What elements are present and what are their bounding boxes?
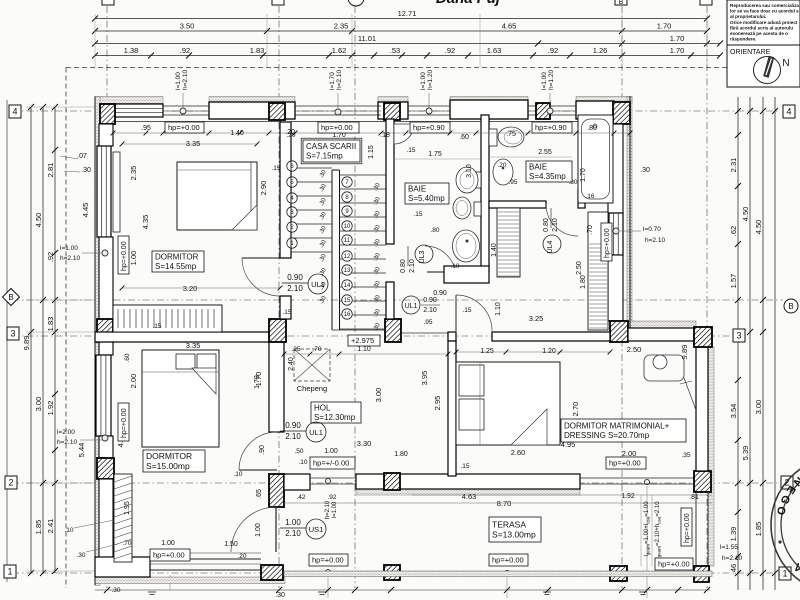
svg-text:1.38: 1.38	[124, 46, 139, 55]
svg-text:hp=+0.00: hp=+0.00	[604, 228, 611, 258]
landing edge line	[401, 332, 448, 334]
svg-text:2.50: 2.50	[576, 261, 583, 275]
svg-text:1.83: 1.83	[46, 317, 55, 332]
svg-text:DORMITOR: DORMITOR	[146, 451, 192, 461]
svg-text:.18: .18	[380, 132, 390, 139]
svg-text:4.50: 4.50	[741, 207, 750, 222]
svg-text:2.00: 2.00	[129, 374, 138, 389]
svg-text:16: 16	[344, 312, 351, 318]
svg-text:11.01: 11.01	[358, 34, 376, 43]
svg-text:.53: .53	[390, 46, 400, 55]
column left lower	[97, 458, 114, 479]
svg-text:l=1.00: l=1.00	[175, 72, 182, 90]
svg-text:.15: .15	[462, 307, 471, 314]
svg-text:1.85: 1.85	[754, 522, 763, 537]
svg-text:.70: .70	[312, 346, 321, 353]
svg-text:lor se va face doar cu acordul: lor se va face doar cu acordul s	[730, 9, 799, 14]
svg-text:.95: .95	[423, 319, 432, 326]
bath1 toilet tank	[474, 172, 481, 188]
svg-text:hp=+0.00: hp=+0.00	[121, 241, 128, 271]
svg-text:hp=+/-0.00: hp=+/-0.00	[313, 459, 349, 468]
svg-text:l=1.55: l=1.55	[720, 544, 738, 551]
svg-text:9.89: 9.89	[680, 345, 689, 360]
svg-text:15: 15	[344, 298, 351, 304]
column hol south	[384, 473, 400, 490]
svg-text:l=1.00: l=1.00	[541, 72, 548, 90]
insulation top band segments	[95, 97, 163, 104]
svg-text:9.89: 9.89	[22, 336, 31, 351]
svg-text:1: 1	[7, 567, 12, 577]
south wall dormitor2	[95, 557, 150, 577]
bed dormitor top-left	[177, 162, 257, 230]
svg-text:1.40: 1.40	[491, 243, 498, 257]
svg-text:.30: .30	[640, 167, 650, 174]
svg-text:fără acordul scris al autorulu: fără acordul scris al autorulu	[730, 25, 793, 30]
column top mid2 (stair right)	[384, 103, 400, 120]
svg-text:4.50: 4.50	[34, 213, 43, 228]
svg-text:h=2.10: h=2.10	[645, 237, 665, 244]
svg-text:1.85: 1.85	[34, 520, 43, 535]
svg-text:5.39: 5.39	[741, 446, 750, 461]
svg-text:3.00: 3.00	[34, 397, 43, 412]
svg-text:2.90: 2.90	[259, 181, 268, 196]
svg-text:0.90: 0.90	[433, 290, 447, 297]
svg-text:1.57: 1.57	[729, 274, 738, 289]
page border line left	[6, 100, 8, 582]
svg-text:UL1: UL1	[405, 303, 418, 310]
svg-text:2.95: 2.95	[433, 396, 442, 411]
svg-text:1.70: 1.70	[657, 22, 672, 31]
svg-text:.65: .65	[256, 489, 263, 499]
svg-text:.30: .30	[111, 587, 120, 594]
radiator bottom-left	[114, 474, 132, 562]
svg-text:CASA SCARII: CASA SCARII	[306, 142, 356, 151]
closet bath1 side	[497, 208, 520, 277]
left wall	[94, 97, 96, 586]
svg-text:1.26: 1.26	[593, 46, 608, 55]
svg-text:hp=+0.00: hp=+0.00	[658, 560, 690, 569]
svg-text:hp=+0.00: hp=+0.00	[312, 556, 344, 565]
svg-text:2.31: 2.31	[729, 158, 738, 173]
svg-text:.10: .10	[233, 471, 242, 478]
svg-text:al proprietarului.: al proprietarului.	[730, 14, 766, 19]
svg-text:.95: .95	[141, 125, 151, 132]
svg-text:14: 14	[344, 283, 351, 289]
top wall: solid segments	[209, 102, 295, 119]
wall between baths	[481, 115, 489, 272]
svg-text:Reproducerea sau comercializa: Reproducerea sau comercializa	[730, 3, 799, 8]
right wall (top block)	[629, 97, 631, 333]
svg-text:2.10: 2.10	[423, 307, 437, 314]
svg-text:B: B	[619, 0, 624, 6]
svg-text:8.70: 8.70	[497, 499, 512, 508]
window left W6 (2.35)	[97, 146, 111, 237]
closet hall (hatched hangers)	[588, 212, 608, 330]
svg-text:hp=+0.00: hp=+0.00	[609, 459, 641, 468]
svg-text:hgeam=2.10+husa=2.10: hgeam=2.10+husa=2.10	[655, 501, 662, 561]
svg-text:.80: .80	[430, 227, 439, 234]
svg-text:1.00: 1.00	[285, 518, 301, 527]
svg-text:4: 4	[12, 107, 17, 117]
column terasa SE	[694, 566, 709, 582]
svg-text:.80: .80	[587, 125, 597, 132]
svg-text:hp=+0.00: hp=+0.00	[492, 556, 524, 565]
svg-text:12.71: 12.71	[398, 9, 417, 18]
svg-text:.42: .42	[296, 494, 305, 501]
svg-text:hp=+0.00: hp=+0.00	[684, 513, 691, 543]
bath1 door UL3 arc	[425, 246, 456, 277]
insulation south wall master	[356, 489, 580, 495]
svg-text:1.70: 1.70	[580, 168, 587, 182]
window right W9 (0.70)	[609, 213, 623, 255]
svg-text:1: 1	[782, 569, 787, 579]
window W1 top-left	[115, 104, 163, 117]
svg-text:.60: .60	[124, 353, 131, 362]
svg-text:3: 3	[736, 331, 741, 341]
svg-text:.30: .30	[76, 552, 85, 559]
column axis3 mid	[269, 319, 286, 342]
column entry (tall)	[269, 474, 284, 507]
svg-text:.92: .92	[46, 252, 55, 262]
svg-text:0.90: 0.90	[285, 421, 301, 430]
svg-text:hp=+0.90: hp=+0.90	[535, 123, 567, 132]
svg-text:.30: .30	[81, 167, 91, 174]
svg-text:2.40: 2.40	[288, 357, 295, 371]
svg-text:DORMITOR: DORMITOR	[155, 253, 199, 262]
svg-text:2.70: 2.70	[571, 402, 580, 417]
master door arc	[456, 295, 492, 331]
insulation right band lower	[708, 347, 714, 566]
wardrobe top-left room	[113, 305, 222, 332]
svg-text:.92: .92	[445, 46, 455, 55]
svg-text:.10: .10	[450, 263, 459, 270]
hp level boxes	[165, 122, 204, 133]
svg-text:.30: .30	[275, 592, 285, 599]
window W4 bath1	[408, 105, 450, 107]
bed master	[456, 362, 560, 445]
bath dim texts	[394, 158, 481, 160]
bath2 door arc	[546, 204, 578, 236]
svg-text:.15: .15	[282, 309, 291, 316]
svg-text:.15: .15	[152, 323, 161, 330]
svg-text:4.45: 4.45	[81, 203, 90, 218]
svg-text:exonerează pe acesta de o: exonerează pe acesta de o	[730, 31, 788, 36]
window W2	[163, 105, 209, 107]
svg-text:UL4: UL4	[547, 240, 554, 253]
dressing table + stool master	[644, 355, 684, 381]
svg-text:2: 2	[8, 478, 13, 488]
axis markers	[9, 105, 21, 118]
svg-text:h=2.10: h=2.10	[325, 500, 331, 519]
svg-text:3.54: 3.54	[729, 404, 738, 419]
svg-text:.50: .50	[294, 448, 303, 455]
dormitor2 door arc	[239, 469, 277, 471]
svg-text:1.00: 1.00	[161, 540, 175, 547]
svg-text:12: 12	[344, 254, 351, 260]
svg-text:.20: .20	[497, 162, 506, 169]
svg-text:hp=+0.00: hp=+0.00	[321, 123, 353, 132]
svg-text:0.80: 0.80	[400, 259, 407, 273]
column master SE	[694, 471, 711, 492]
svg-text:TERASA: TERASA	[492, 519, 526, 529]
svg-text:.60: .60	[459, 134, 469, 141]
svg-text:10: 10	[344, 224, 351, 230]
svg-text:S=13.00mp: S=13.00mp	[492, 529, 536, 539]
svg-text:.10: .10	[64, 527, 73, 534]
svg-text:UL1: UL1	[309, 428, 323, 437]
bed dormitor bottom-left	[142, 350, 219, 447]
stair door UL1 arc	[242, 257, 280, 259]
column master NE	[694, 327, 712, 347]
column top-left corner	[100, 104, 115, 124]
bath2 bidet	[493, 159, 513, 185]
svg-text:Chepeng: Chepeng	[297, 384, 327, 393]
bottom dims	[95, 589, 710, 591]
svg-text:UL3: UL3	[419, 250, 426, 263]
svg-text:1.80: 1.80	[580, 275, 587, 289]
svg-text:UL1: UL1	[311, 280, 325, 289]
svg-text:B: B	[8, 293, 13, 302]
sidebar panel	[727, 0, 800, 87]
bath1 toilet	[456, 167, 478, 193]
master north wall	[448, 332, 456, 341]
svg-text:răspundere.: răspundere.	[730, 37, 756, 42]
svg-text:S=5.40mp: S=5.40mp	[408, 194, 445, 203]
svg-text:0.80: 0.80	[543, 218, 550, 232]
column left mid	[97, 319, 113, 342]
svg-text:hp=+0.90: hp=+0.90	[413, 123, 445, 132]
svg-text:hp=+0.00: hp=+0.00	[121, 408, 128, 438]
svg-text:3.25: 3.25	[529, 314, 544, 323]
compass	[754, 57, 781, 84]
svg-text:S=12.30mp: S=12.30mp	[314, 413, 356, 422]
svg-text:.92: .92	[327, 494, 336, 501]
svg-text:1.92: 1.92	[46, 401, 55, 416]
window left W7 (2.00)	[96, 355, 111, 436]
svg-text:1.92: 1.92	[621, 493, 635, 500]
svg-text:.07: .07	[77, 153, 87, 160]
svg-text:3.00: 3.00	[374, 388, 383, 403]
column right mid (axis3)	[610, 321, 628, 342]
svg-text:3.00: 3.00	[754, 400, 763, 415]
svg-text:.90: .90	[259, 445, 266, 455]
window south W8	[150, 558, 261, 560]
insulation left band	[95, 97, 100, 586]
terasa east edge	[695, 492, 697, 566]
svg-text:+2.975: +2.975	[351, 336, 374, 345]
window W5 bath2	[528, 105, 576, 107]
svg-text:5.44: 5.44	[77, 443, 86, 458]
radiator top-left room	[113, 152, 120, 232]
svg-text:US1: US1	[309, 525, 324, 534]
svg-text:1.80: 1.80	[394, 451, 408, 458]
column axis3 stair-right	[385, 319, 401, 342]
svg-text:4.63: 4.63	[462, 492, 477, 501]
bath1 sink	[453, 230, 480, 262]
terasa south slab edge	[284, 571, 712, 577]
svg-text:1.10: 1.10	[357, 346, 371, 353]
bath2 south wall	[489, 201, 546, 208]
svg-text:3.50: 3.50	[180, 22, 195, 31]
svg-text:h=2.10: h=2.10	[722, 555, 742, 562]
svg-text:.15: .15	[271, 165, 280, 172]
bathtub bath2	[578, 115, 613, 203]
svg-text:S=14.55mp: S=14.55mp	[155, 262, 197, 271]
svg-text:DRESSING S=20.70mp: DRESSING S=20.70mp	[564, 431, 650, 440]
window W3 stair	[295, 105, 381, 107]
roof overhang dashed	[66, 67, 745, 69]
svg-text:.92: .92	[180, 46, 190, 55]
svg-text:1.70: 1.70	[670, 46, 685, 55]
top wall inner face line	[113, 121, 281, 123]
right dimension lines	[737, 97, 739, 590]
svg-text:HOL: HOL	[314, 404, 331, 413]
svg-text:3.30: 3.30	[357, 439, 372, 448]
svg-text:l=1.00: l=1.00	[332, 501, 338, 518]
svg-text:3.20: 3.20	[183, 284, 198, 293]
svg-text:l=2.00: l=2.00	[57, 429, 75, 436]
svg-text:h=2.10: h=2.10	[336, 70, 343, 90]
svg-text:2.41: 2.41	[46, 519, 55, 534]
svg-text:.75: .75	[506, 131, 516, 138]
svg-text:1.62: 1.62	[332, 46, 347, 55]
column terasa S mid	[384, 565, 400, 580]
svg-text:1.63: 1.63	[487, 46, 502, 55]
svg-text:4.50: 4.50	[754, 220, 763, 235]
svg-text:.15: .15	[460, 463, 469, 470]
svg-text:2.10: 2.10	[285, 529, 301, 538]
svg-text:.15: .15	[413, 211, 422, 218]
svg-text:2.10: 2.10	[409, 259, 416, 273]
bath2 toilet	[498, 127, 524, 147]
room labels	[303, 140, 360, 162]
column top mid1	[269, 103, 285, 120]
svg-text:h=2.10: h=2.10	[57, 439, 77, 446]
column terasa S mid2	[610, 566, 627, 581]
svg-text:2.10: 2.10	[285, 432, 301, 441]
svg-text:4: 4	[786, 107, 791, 117]
round stamp (cut off at edge)	[771, 457, 800, 593]
master west wall	[448, 341, 456, 476]
stair west wall	[280, 122, 291, 258]
svg-text:.20: .20	[286, 132, 295, 139]
svg-text:B: B	[788, 302, 793, 311]
svg-text:2.35: 2.35	[334, 22, 349, 31]
svg-text:h=1.20: h=1.20	[427, 70, 434, 90]
svg-text:.16: .16	[585, 193, 594, 200]
svg-text:BAIE: BAIE	[408, 185, 426, 194]
svg-text:1.00: 1.00	[324, 448, 338, 455]
svg-text:2.60: 2.60	[511, 448, 526, 457]
svg-text:11: 11	[344, 238, 351, 244]
svg-text:3.35: 3.35	[186, 139, 201, 148]
svg-text:2.81: 2.81	[46, 163, 55, 178]
svg-text:2.55: 2.55	[538, 149, 552, 156]
svg-text:1.40: 1.40	[230, 130, 244, 137]
lgeam dim lines	[640, 495, 642, 566]
svg-text:.46: .46	[729, 564, 738, 574]
svg-text:.70: .70	[122, 540, 131, 547]
svg-text:S=7.15mp: S=7.15mp	[306, 152, 343, 161]
svg-text:DORMITOR MATRIMONIAL+: DORMITOR MATRIMONIAL+	[564, 422, 670, 431]
bath1 corner shower	[394, 124, 414, 144]
svg-text:1.75: 1.75	[428, 151, 442, 158]
svg-text:1.10: 1.10	[495, 302, 502, 316]
svg-text:S=15.00mp: S=15.00mp	[146, 461, 190, 471]
svg-text:.62: .62	[729, 226, 738, 236]
svg-text:1.39: 1.39	[729, 527, 738, 542]
svg-text:2.10: 2.10	[552, 218, 559, 232]
svg-text:1.25: 1.25	[480, 348, 494, 355]
svg-text:N: N	[782, 58, 789, 69]
svg-text:3: 3	[10, 329, 15, 339]
svg-text:.35: .35	[681, 452, 690, 459]
svg-text:1.70: 1.70	[254, 372, 263, 387]
svg-text:Orice modificare adusă proiect: Orice modificare adusă proiect	[730, 20, 798, 25]
column south-left bottom	[261, 565, 283, 580]
svg-text:l=0.70: l=0.70	[643, 226, 661, 233]
HOL/master south wall	[284, 474, 310, 490]
svg-text:1.15: 1.15	[368, 145, 375, 159]
svg-text:1.95: 1.95	[124, 501, 131, 515]
svg-text:3.10: 3.10	[466, 164, 473, 178]
svg-text:l=1.00: l=1.00	[420, 72, 427, 90]
svg-text:Dana Puj: Dana Puj	[436, 0, 501, 7]
door gap + US1 leaf	[275, 507, 277, 552]
chepeng attic hatch	[294, 349, 330, 381]
svg-text:.92: .92	[548, 46, 558, 55]
svg-text:2.50: 2.50	[627, 345, 642, 354]
svg-text:1.00: 1.00	[129, 251, 138, 266]
svg-text:lgeam=1.00+lusa=1.00: lgeam=1.00+lusa=1.00	[644, 501, 651, 557]
svg-text:1.00: 1.00	[255, 523, 262, 537]
insulation master NE wall	[628, 321, 696, 328]
svg-text:ORIENTARE: ORIENTARE	[730, 49, 771, 56]
insulation right band top	[627, 97, 632, 333]
staircase CASA SCARII	[331, 170, 333, 330]
interior dimension line top rooms	[113, 132, 630, 134]
svg-text:4.65: 4.65	[502, 22, 517, 31]
east wall dormitor2	[269, 341, 284, 432]
svg-text:1.83: 1.83	[250, 46, 265, 55]
svg-text:.10: .10	[298, 459, 307, 466]
svg-text:h=2.10: h=2.10	[182, 70, 189, 90]
svg-text:4.35: 4.35	[141, 215, 150, 230]
column top-right corner	[613, 102, 630, 124]
bath1 bidet	[453, 197, 471, 219]
svg-text:h=2.10: h=2.10	[60, 255, 80, 262]
svg-text:hp=+0.00: hp=+0.00	[153, 551, 185, 560]
svg-text:0.90: 0.90	[423, 297, 437, 304]
svg-text:l=1.70: l=1.70	[329, 72, 336, 90]
svg-text:.95: .95	[508, 179, 517, 186]
svg-text:l=1.00: l=1.00	[60, 245, 78, 252]
svg-text:3.95: 3.95	[420, 371, 429, 386]
svg-text:.20: .20	[237, 553, 246, 560]
svg-text:.25: .25	[291, 346, 300, 353]
svg-text:3.35: 3.35	[186, 341, 201, 350]
column top mid3	[536, 103, 550, 119]
bath1 bidet tank	[474, 202, 481, 216]
bath1 south wall	[444, 266, 489, 283]
top dimension lines	[95, 18, 707, 20]
left dimension lines	[30, 107, 32, 573]
svg-text:.70: .70	[587, 225, 594, 235]
master door label	[402, 296, 420, 314]
svg-text:BAIE: BAIE	[529, 163, 547, 172]
svg-text:.15: .15	[406, 147, 415, 154]
axis-3 wall left part	[95, 332, 270, 342]
